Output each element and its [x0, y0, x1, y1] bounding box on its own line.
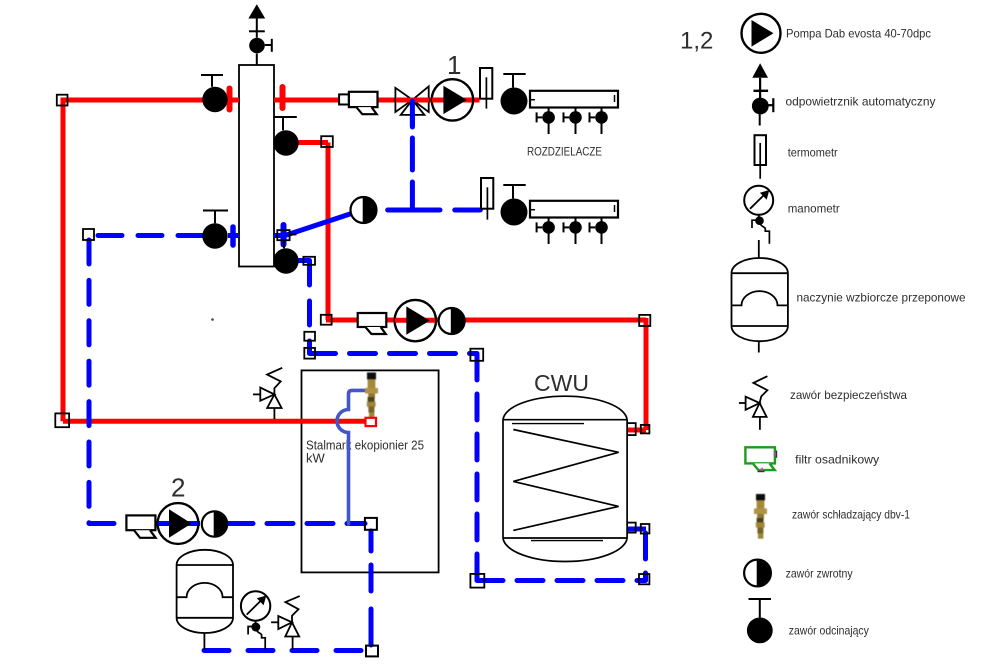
LAYER2 pipes: [63, 87, 646, 651]
filter F3 before pump 2: [126, 515, 155, 537]
wire blue bottom CWU dashed: [477, 578, 646, 583]
wire red CWU inlet stub: [627, 428, 646, 433]
thermometer T1: [480, 68, 492, 109]
wire blue three-way drop dash 2: [410, 182, 415, 208]
legend thermometer symbol: [755, 135, 767, 179]
valve V4 shut-off separator right lower: [273, 235, 298, 274]
svg-text:termometr: termometr: [788, 146, 838, 160]
legend safety valve symbol: [739, 376, 768, 430]
svg-text:zawór odcinający: zawór odcinający: [789, 624, 869, 638]
distributor 1: [530, 91, 618, 134]
manometer main: [241, 591, 270, 649]
legend filter symbol (green): [745, 447, 776, 471]
hydraulic separator: [239, 65, 274, 267]
LAYER1: [239, 65, 439, 572]
boiler body: [302, 370, 439, 572]
svg-text:1: 1: [447, 50, 461, 80]
valve V1 shut-off separator top-left: [201, 75, 228, 112]
wire blue junction stub separator right: [274, 233, 285, 238]
node corner box branch (309,261): [303, 257, 315, 265]
wire blue diagonal to check valve: [285, 214, 352, 236]
valve V3 shut-off separator left lower: [202, 211, 228, 249]
filter F1 top line: [339, 92, 377, 114]
safety valve SV1 at boiler: [253, 368, 282, 419]
wire red CWU pump line: [326, 318, 439, 323]
three-way mixing valve: [395, 86, 429, 126]
node corner box red bottom-left (62,420): [55, 413, 69, 427]
svg-text:kW: kW: [306, 451, 326, 466]
svg-text:ROZDZIELACZE: ROZDZIELACZE: [527, 145, 602, 159]
safety valve SV2 bottom: [271, 596, 300, 649]
svg-text:zawór zwrotny: zawór zwrotny: [786, 567, 853, 581]
wire red boiler feed horizontal: [63, 419, 366, 424]
node flange CWU top: [627, 423, 636, 435]
legend manometer symbol: [744, 186, 773, 244]
CWU tank: [503, 396, 627, 561]
wire blue horizontal mid dashed: [310, 351, 478, 356]
node corner box riser (309,353): [304, 348, 315, 359]
node corner box (477,580): [470, 574, 484, 588]
wire blue stub to separator left: [228, 233, 239, 238]
wire red separator to corner: [286, 140, 328, 145]
node corner box red (646,320): [639, 315, 650, 326]
distributor 2: [530, 201, 618, 244]
wire red supply top-left horizontal: [63, 98, 239, 103]
pump P2: [158, 503, 199, 544]
node corner box red (328,320): [321, 315, 332, 325]
wire red supply left vertical: [61, 98, 66, 422]
wire blue right vertical dashed: [475, 354, 480, 580]
wire blue return left dashed horizontal: [92, 233, 202, 238]
wire blue CWU right riser dashed: [643, 533, 648, 580]
wire red supply to distributor 1: [274, 98, 480, 103]
node flange CWU bottom: [627, 523, 636, 533]
legend shut-off valve symbol: [747, 599, 773, 643]
wire blue after check valve 2 dashed: [227, 521, 365, 526]
node corner box bottom (371,650): [366, 646, 378, 657]
svg-text:filtr osadnikowy: filtr osadnikowy: [795, 453, 879, 467]
legend air vent symbol: [752, 63, 773, 125]
tick red left separator: [227, 89, 233, 110]
node corner box red mid (328,142): [321, 136, 333, 147]
node red square at dbv: [366, 418, 377, 426]
air vent on separator top: [248, 4, 271, 65]
svg-text:zawór bezpieczeństwa: zawór bezpieczeństwa: [790, 388, 907, 402]
check valve CV3 after pump 2: [202, 511, 227, 536]
svg-text:odpowietrznik automatyczny: odpowietrznik automatyczny: [786, 95, 936, 109]
valve V5 shut-off before distributor 1: [501, 74, 528, 115]
check valve CV1 near separator: [351, 197, 377, 223]
legend dbv-1 valve symbol: [754, 494, 767, 539]
wire blue riser from branch dashed: [307, 261, 312, 353]
legend pump symbol: [742, 14, 781, 53]
expansion vessel main: [177, 550, 233, 650]
svg-text:1,2: 1,2: [680, 28, 713, 55]
valve V6 shut-off before distributor 2: [501, 185, 528, 226]
node corner box blue CWU bottom: [641, 524, 650, 534]
wire red CWU down right: [644, 318, 649, 430]
node small box riser (309,336): [304, 332, 315, 341]
legend check valve symbol: [744, 560, 771, 587]
svg-text:CWU: CWU: [534, 370, 589, 396]
wire blue return bottom corner to filter: [89, 521, 126, 526]
wire blue three-way drop dash 1: [410, 138, 415, 170]
wire blue valve branch stub: [297, 258, 310, 263]
pump P3 CWU line: [395, 300, 436, 341]
pump P1: [432, 79, 473, 120]
wire blue tee bar at distributor 2 line: [388, 208, 440, 213]
node corner box (477,354): [470, 349, 483, 361]
boiler internal dbv pipe (thin blue): [337, 390, 366, 524]
thermometer T2: [481, 178, 493, 220]
wire blue three-way valve drop solid: [410, 100, 415, 127]
tick blue left separator: [230, 227, 236, 245]
wire blue pump2 line: [126, 521, 200, 526]
wire blue CWU outlet stub: [627, 527, 646, 532]
valve V2 shut-off separator right upper: [273, 117, 298, 156]
check valve CV2 CWU line: [439, 308, 465, 334]
wire blue boiler vertical dashed: [369, 531, 374, 551]
node junction box separator right (283,235): [277, 230, 289, 240]
tick blue right separator: [281, 225, 287, 245]
node corner box red CWU top: [641, 425, 650, 434]
wire red vertical to CWU pump line: [326, 143, 331, 321]
svg-text:zawór schładzający dbv-1: zawór schładzający dbv-1: [792, 508, 910, 522]
wire blue dash to distributor 2: [455, 208, 481, 213]
svg-text:naczynie wzbiorcze przeponowe: naczynie wzbiorcze przeponowe: [797, 291, 966, 305]
svg-text:Pompa Dab evosta 40-70dpc: Pompa Dab evosta 40-70dpc: [786, 27, 931, 41]
wire red CWU line after check valve: [464, 318, 646, 323]
wire blue return left vertical dashed: [87, 240, 92, 523]
node corner box blue left: [83, 229, 94, 240]
svg-text:2: 2: [171, 473, 185, 503]
node corner box blue (645,580): [639, 574, 649, 584]
node corner box boiler return (371,524): [365, 518, 377, 530]
stray ink dot: [211, 318, 214, 321]
tick red right separator: [280, 87, 286, 108]
dbv-1 cooling valve on boiler: [365, 373, 378, 419]
wire blue bottom safety-group line dashed: [204, 648, 366, 653]
svg-text:manometr: manometr: [788, 202, 840, 216]
legend expansion vessel symbol: [732, 240, 788, 353]
node corner box red top-left: [57, 95, 68, 106]
filter F2 CWU line: [358, 313, 387, 334]
